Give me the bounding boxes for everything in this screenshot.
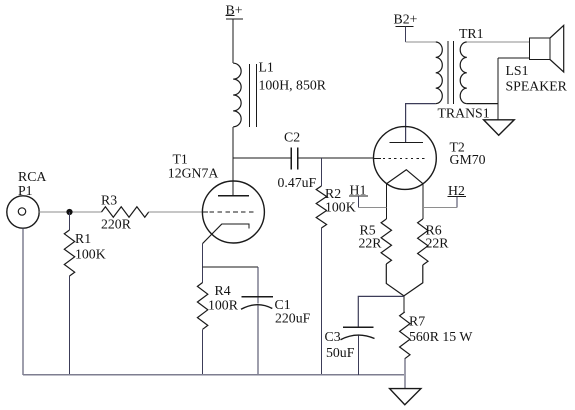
tube T1 cathode bbox=[248, 223, 250, 228]
wire bbox=[257, 305, 259, 375]
ground bus wire bbox=[23, 374, 404, 376]
tube T2 envelope bbox=[374, 127, 437, 190]
svg-text:100K: 100K bbox=[75, 247, 106, 262]
wire bbox=[467, 103, 498, 105]
node H1 bbox=[349, 183, 368, 198]
wire bbox=[404, 265, 423, 296]
wire bbox=[232, 127, 234, 196]
svg-text:50uF: 50uF bbox=[326, 345, 355, 360]
svg-text:TR1: TR1 bbox=[459, 26, 484, 41]
wire bbox=[298, 157, 374, 159]
transformer TR1 core bbox=[448, 41, 453, 104]
wire bbox=[357, 336, 359, 375]
svg-text:H2: H2 bbox=[448, 183, 465, 198]
wire bbox=[385, 184, 387, 219]
svg-text:L1: L1 bbox=[259, 60, 274, 75]
ground bbox=[390, 389, 421, 405]
node H2 bbox=[448, 183, 467, 198]
svg-text:560R 15 W: 560R 15 W bbox=[409, 329, 472, 344]
value label R7 bbox=[409, 314, 472, 345]
wire bbox=[232, 19, 234, 63]
value label R2 bbox=[325, 186, 356, 215]
wire bbox=[149, 211, 203, 213]
wire bbox=[257, 267, 259, 304]
svg-text:R4: R4 bbox=[215, 283, 231, 298]
wire bbox=[467, 41, 530, 43]
wire bbox=[404, 359, 406, 389]
wire bbox=[497, 58, 499, 120]
speaker LS1 bbox=[530, 25, 564, 72]
wire bbox=[320, 228, 322, 375]
svg-text:H1: H1 bbox=[350, 183, 367, 198]
tube T2 grid bbox=[374, 157, 382, 159]
resistor R1 bbox=[64, 230, 74, 276]
transformer TR1 primary bbox=[436, 42, 443, 104]
svg-text:LS1: LS1 bbox=[506, 63, 529, 78]
wire bbox=[22, 228, 24, 375]
value label R1 bbox=[75, 231, 106, 262]
svg-text:R3: R3 bbox=[101, 193, 117, 208]
node B2+ bbox=[394, 12, 418, 27]
resistor R6 bbox=[418, 219, 428, 265]
value label C3 bbox=[325, 329, 355, 360]
connector P1 RCA bbox=[7, 169, 47, 228]
value label L1 bbox=[259, 60, 327, 93]
svg-text:100K: 100K bbox=[325, 200, 356, 215]
svg-text:220uF: 220uF bbox=[275, 311, 311, 326]
value label C1 bbox=[275, 297, 311, 326]
wire bbox=[386, 264, 404, 296]
svg-text:22R: 22R bbox=[359, 236, 383, 251]
wire bbox=[202, 329, 204, 375]
wire bbox=[358, 296, 404, 327]
wire bbox=[403, 296, 405, 312]
resistor R3 bbox=[102, 207, 149, 217]
wire bbox=[498, 57, 530, 59]
tube T1 grid bbox=[203, 211, 209, 213]
inductor L1 core bbox=[249, 64, 256, 127]
tube T1 envelope bbox=[202, 181, 264, 243]
value label R6 bbox=[426, 223, 450, 251]
tube T1 plate bbox=[218, 195, 249, 197]
svg-text:B2+: B2+ bbox=[394, 12, 418, 27]
svg-text:T1: T1 bbox=[173, 152, 188, 167]
svg-text:0.47uF: 0.47uF bbox=[278, 175, 317, 190]
inductor L1 bbox=[233, 63, 241, 127]
wire bbox=[405, 26, 407, 42]
value label R5 bbox=[359, 223, 383, 251]
svg-text:TRANS1: TRANS1 bbox=[438, 106, 490, 121]
wire bbox=[358, 196, 360, 208]
capacitor C1 bbox=[241, 297, 273, 310]
value label C2 bbox=[278, 130, 317, 191]
svg-text:22R: 22R bbox=[426, 236, 450, 251]
capacitor C2 bbox=[291, 147, 298, 169]
wire bbox=[456, 197, 458, 208]
resistor R4 bbox=[197, 283, 207, 330]
value label R3 bbox=[101, 193, 132, 232]
wire bbox=[39, 211, 101, 213]
wire bbox=[320, 158, 322, 186]
resistor R5 bbox=[381, 219, 391, 264]
svg-text:C3: C3 bbox=[325, 329, 341, 344]
svg-text:R7: R7 bbox=[409, 314, 425, 329]
svg-text:C2: C2 bbox=[284, 130, 300, 145]
ground bbox=[484, 120, 515, 136]
value label R4 bbox=[208, 283, 239, 313]
value label T1 bbox=[168, 152, 219, 181]
wire bbox=[69, 212, 71, 230]
wire bbox=[202, 244, 204, 283]
svg-text:100H, 850R: 100H, 850R bbox=[259, 78, 327, 93]
svg-text:100R: 100R bbox=[208, 298, 239, 313]
wire bbox=[203, 266, 258, 268]
junction dot bbox=[66, 209, 72, 215]
svg-text:12GN7A: 12GN7A bbox=[168, 166, 219, 181]
value label LS1 SPEAKER bbox=[506, 63, 568, 94]
node B+ bbox=[226, 3, 244, 19]
svg-text:RCA: RCA bbox=[18, 169, 46, 184]
wire bbox=[406, 104, 436, 143]
wire bbox=[69, 276, 71, 375]
wire bbox=[422, 184, 424, 219]
capacitor C3 bbox=[341, 327, 375, 339]
tube T2 filament bbox=[387, 170, 423, 184]
wire bbox=[233, 157, 291, 159]
resistor R2 bbox=[316, 186, 326, 228]
svg-text:220R: 220R bbox=[101, 217, 132, 232]
resistor R7 bbox=[400, 312, 410, 359]
value label T2 bbox=[450, 140, 486, 168]
tube T2 plate bbox=[390, 142, 424, 144]
transformer TR1 secondary bbox=[460, 42, 467, 104]
svg-text:GM70: GM70 bbox=[450, 152, 486, 167]
svg-text:R1: R1 bbox=[75, 231, 91, 246]
svg-text:SPEAKER: SPEAKER bbox=[506, 79, 568, 94]
